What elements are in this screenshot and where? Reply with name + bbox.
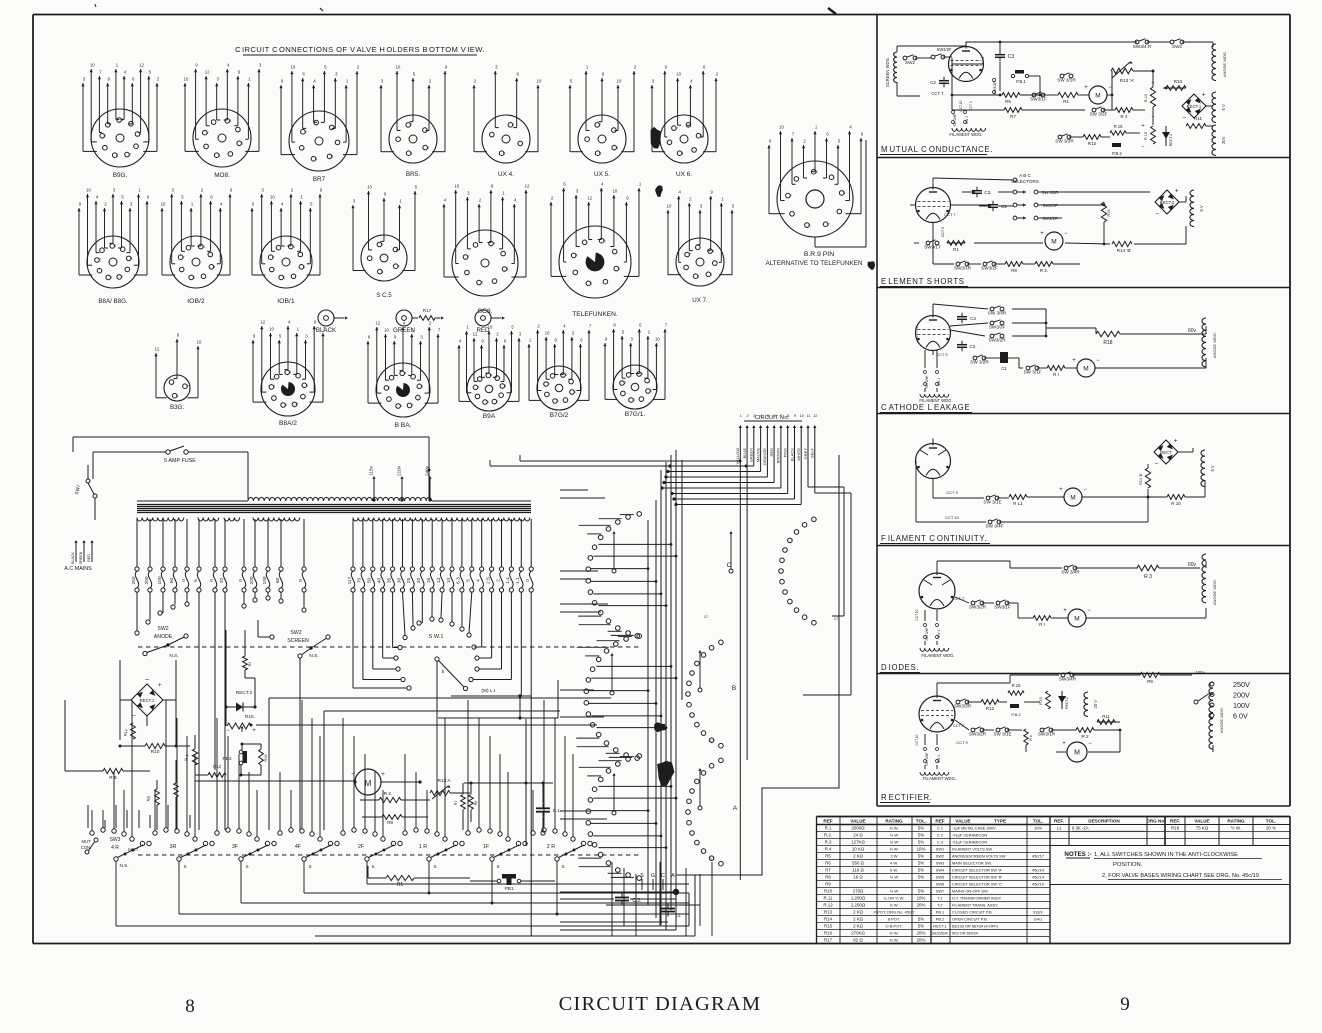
svg-text:12: 12 <box>139 63 144 68</box>
svg-text:6 W.: 6 W. <box>890 868 898 873</box>
svg-text:R10: R10 <box>151 749 160 755</box>
svg-text:R8: R8 <box>1011 268 1017 273</box>
svg-text:1: 1 <box>504 151 506 155</box>
svg-text:R15.: R15. <box>245 714 255 720</box>
svg-text:R7: R7 <box>454 800 458 805</box>
svg-text:7: 7 <box>496 400 498 404</box>
svg-text:1: 1 <box>740 414 742 418</box>
svg-text:17: 17 <box>834 617 838 621</box>
svg-text:−: − <box>1083 487 1087 493</box>
svg-text:+: + <box>252 728 256 734</box>
svg-text:10: 10 <box>537 79 542 84</box>
svg-text:R1: R1 <box>953 247 959 252</box>
svg-text:SCREEN WDG.: SCREEN WDG. <box>885 57 890 87</box>
svg-text:M UTUAL C ONDUCTANCE.: M UTUAL C ONDUCTANCE. <box>881 145 993 154</box>
svg-text:R 2.: R 2. <box>384 791 393 797</box>
svg-text:CCT 9: CCT 9 <box>946 490 958 495</box>
svg-text:C2: C2 <box>930 80 936 85</box>
svg-text:ALTERNATIVE TO TELEFUNKEN: ALTERNATIVE TO TELEFUNKEN <box>765 260 862 267</box>
svg-text:SW2: SW2 <box>905 60 915 65</box>
svg-text:4: 4 <box>398 264 400 268</box>
svg-text:4: 4 <box>641 372 643 376</box>
svg-text:R.2.: R.2. <box>824 833 832 838</box>
svg-text:70: 70 <box>357 578 363 584</box>
svg-text:SW3/1F: SW3/1F <box>1030 97 1047 102</box>
svg-text:C ATHODE L EAKAGE: C ATHODE L EAKAGE <box>881 403 970 412</box>
svg-text:4: 4 <box>293 245 295 249</box>
svg-text:PB1: PB1 <box>504 886 513 892</box>
svg-text:~: ~ <box>145 677 149 684</box>
svg-text:10: 10 <box>800 414 804 418</box>
svg-text:1.4: 1.4 <box>505 577 511 584</box>
svg-text:4: 4 <box>289 371 291 375</box>
svg-text:110 Ω: 110 Ω <box>852 868 864 873</box>
svg-text:MAUVE: MAUVE <box>755 448 760 463</box>
svg-text:0: 0 <box>525 579 531 582</box>
svg-text:8 POT.: 8 POT. <box>888 917 900 922</box>
svg-text:SW 3/2F: SW 3/2F <box>1090 112 1108 117</box>
svg-text:R7: R7 <box>1010 114 1016 119</box>
svg-text:SW 3/1E: SW 3/1E <box>983 500 1001 505</box>
svg-text:S: S <box>245 864 248 869</box>
svg-text:SW3/3F: SW3/3F <box>936 47 952 52</box>
svg-text:7: 7 <box>389 386 391 390</box>
svg-text:1: 1 <box>316 157 318 161</box>
svg-text:2 KΩ: 2 KΩ <box>853 924 864 929</box>
svg-text:C: C <box>661 873 665 879</box>
svg-text:S: S <box>371 864 374 869</box>
svg-text:·01μF CERAMICON: ·01μF CERAMICON <box>952 840 987 845</box>
svg-text:1: 1 <box>633 398 635 402</box>
svg-text:4: 4 <box>427 146 429 150</box>
svg-text:C2: C2 <box>1001 204 1007 209</box>
svg-text:270Ω: 270Ω <box>853 889 864 894</box>
svg-text:C.1.: C.1. <box>553 808 561 813</box>
svg-text:UX 7.: UX 7. <box>692 297 708 304</box>
svg-text:B.R.9 PIN: B.R.9 PIN <box>804 251 834 258</box>
svg-text:8: 8 <box>185 996 195 1017</box>
svg-text:1: 1 <box>285 403 287 407</box>
svg-text:½ W.: ½ W. <box>889 931 898 936</box>
svg-text:100: 100 <box>157 576 163 584</box>
svg-text:RECT: RECT <box>128 848 139 852</box>
svg-text:7: 7 <box>273 255 275 259</box>
svg-text:BUZZER: BUZZER <box>932 931 948 936</box>
svg-text:7: 7 <box>790 194 792 198</box>
svg-text:10: 10 <box>197 340 202 345</box>
svg-text:1: 1 <box>682 151 684 155</box>
svg-text:+: + <box>1084 85 1088 91</box>
svg-text:R I: R I <box>1039 622 1045 627</box>
svg-text:3R: 3R <box>170 844 177 850</box>
svg-text:1: 1 <box>193 276 195 280</box>
svg-text:RECT.1: RECT.1 <box>140 698 155 703</box>
svg-text:2 R: 2 R <box>547 844 555 850</box>
svg-text:10: 10 <box>667 204 672 209</box>
svg-text:16: 16 <box>426 578 432 584</box>
svg-text:SW3/3R: SW3/3R <box>954 704 972 709</box>
svg-text:5: 5 <box>466 579 472 582</box>
svg-text:4: 4 <box>816 170 818 174</box>
svg-text:5%: 5% <box>918 868 924 873</box>
svg-text:G: G <box>651 873 655 879</box>
svg-text:X POT. DRG.No. 45/27: X POT. DRG.No. 45/27 <box>873 910 915 915</box>
svg-text:SW 3/3R: SW 3/3R <box>1042 190 1059 195</box>
svg-text:½ W.: ½ W. <box>889 938 898 943</box>
svg-text:10: 10 <box>655 337 660 342</box>
svg-text:7: 7 <box>104 134 106 138</box>
svg-text:13: 13 <box>436 578 442 584</box>
svg-text:R10: R10 <box>1174 79 1183 84</box>
svg-text:7: 7 <box>121 275 123 279</box>
svg-text:S C.5: S C.5 <box>376 292 392 299</box>
svg-text:−: − <box>226 728 230 734</box>
svg-text:B8A/ B8G.: B8A/ B8G. <box>98 298 128 305</box>
svg-text:SW3/2R: SW3/2R <box>969 605 987 610</box>
svg-text:6: 6 <box>193 579 199 582</box>
svg-text:45c/17: 45c/17 <box>1032 854 1045 859</box>
svg-text:R.11: R.11 <box>824 896 834 901</box>
svg-text:SW2: SW2 <box>290 630 301 636</box>
svg-text:SW3: SW3 <box>110 837 121 843</box>
svg-text:SW 3/1E: SW 3/1E <box>993 732 1011 737</box>
svg-text:CCT 10: CCT 10 <box>915 734 919 745</box>
svg-text:E LEMENT S HORTS: E LEMENT S HORTS <box>881 277 965 286</box>
svg-text:·1μF METAL CASE 390V: ·1μF METAL CASE 390V <box>952 826 996 831</box>
svg-text:UX 5.: UX 5. <box>594 171 610 178</box>
svg-text:FILAMENT TRANS. ASSY.: FILAMENT TRANS. ASSY. <box>952 903 998 908</box>
svg-text:½ W: ½ W <box>890 840 898 845</box>
svg-text:CCT 9: CCT 9 <box>937 353 948 357</box>
svg-text:ANODE WDG.: ANODE WDG. <box>1222 51 1227 77</box>
svg-text:503 OR 66X34: 503 OR 66X34 <box>952 931 979 936</box>
svg-text:CIRCUIT DIAGRAM: CIRCUIT DIAGRAM <box>559 993 762 1015</box>
svg-text:1: 1 <box>117 153 119 157</box>
svg-text:CCT 7: CCT 7 <box>944 212 956 217</box>
svg-text:UX 4.: UX 4. <box>498 171 514 178</box>
svg-text:R16: R16 <box>1107 210 1111 217</box>
svg-text:SW3/2R: SW3/2R <box>1042 216 1058 221</box>
svg-text:SW 3/4R: SW 3/4R <box>988 311 1007 316</box>
svg-text:200: 200 <box>249 576 255 584</box>
svg-text:SW7: SW7 <box>936 889 944 894</box>
svg-text:20 V: 20 V <box>1093 700 1098 709</box>
svg-text:100v: 100v <box>1195 670 1205 675</box>
svg-text:7: 7 <box>297 403 299 407</box>
svg-text:CCT 7.: CCT 7. <box>931 91 944 96</box>
svg-text:P.B.2: P.B.2 <box>1011 712 1021 717</box>
svg-text:2: 2 <box>747 414 749 418</box>
svg-text:4 W.: 4 W. <box>890 861 898 866</box>
svg-text:R18: R18 <box>1171 826 1180 831</box>
svg-text:DESCRIPTION: DESCRIPTION <box>1088 818 1120 823</box>
svg-text:−: − <box>1156 211 1160 218</box>
svg-text:BR5.: BR5. <box>406 171 420 178</box>
svg-text:BROWN: BROWN <box>776 448 781 463</box>
svg-text:OPEN CIRCUIT P.B.: OPEN CIRCUIT P.B. <box>952 917 988 922</box>
svg-text:75 KΩ: 75 KΩ <box>1196 826 1209 831</box>
svg-text:GREEN: GREEN <box>79 551 83 564</box>
svg-text:−: − <box>1155 461 1159 468</box>
svg-text:+: + <box>1072 358 1076 364</box>
svg-text:20V: 20V <box>1221 136 1226 144</box>
svg-text:1: 1 <box>283 276 285 280</box>
svg-text:12: 12 <box>375 321 380 326</box>
svg-text:RED: RED <box>476 327 490 334</box>
svg-text:9: 9 <box>794 414 796 418</box>
svg-text:12: 12 <box>587 196 592 201</box>
svg-text:4: 4 <box>476 579 482 582</box>
svg-text:R-10: R-10 <box>1144 94 1148 102</box>
svg-text:20%: 20% <box>917 931 926 936</box>
svg-text:M: M <box>1083 365 1088 372</box>
svg-text:1: 1 <box>600 151 602 155</box>
svg-text:R 15: R 15 <box>1039 697 1043 705</box>
svg-text:+: + <box>1175 187 1179 194</box>
svg-text:C.3: C.3 <box>937 840 943 845</box>
svg-text:−: − <box>1183 115 1187 122</box>
svg-text:4: 4 <box>203 245 205 249</box>
svg-text:GREY: GREY <box>803 448 808 460</box>
svg-text:6.3: 6.3 <box>456 577 462 584</box>
svg-text:100V: 100V <box>1233 701 1250 710</box>
svg-text:R ECTIFIER.: R ECTIFIER. <box>881 793 933 802</box>
svg-text:10: 10 <box>367 185 372 190</box>
svg-text:R 15: R 15 <box>1144 132 1148 140</box>
svg-text:UX 6.: UX 6. <box>676 171 692 178</box>
svg-text:A.C MAINS: A.C MAINS <box>64 566 92 572</box>
svg-text:10: 10 <box>270 195 275 200</box>
svg-text:127KΩ: 127KΩ <box>851 840 865 845</box>
svg-text:5%: 5% <box>918 854 924 859</box>
svg-text:5: 5 <box>767 414 769 418</box>
svg-text:−: − <box>1096 358 1100 364</box>
svg-text:SW3/4R: SW3/4R <box>1059 677 1077 682</box>
svg-text:R13: R13 <box>824 910 833 915</box>
svg-text:5%: 5% <box>918 889 924 894</box>
svg-text:·01μF CERAMICON: ·01μF CERAMICON <box>952 833 987 838</box>
svg-text:D IODES.: D IODES. <box>881 663 919 672</box>
svg-text:SW 1: SW 1 <box>937 630 941 638</box>
svg-text:7: 7 <box>187 384 189 388</box>
svg-text:FILAMENT WDG..: FILAMENT WDG.. <box>923 776 957 781</box>
svg-text:550 Ω: 550 Ω <box>852 861 865 866</box>
svg-text:2, FOR VALVE BASES WIRING: 2, FOR VALVE BASES WIRING CHART SEE DRG.… <box>1102 873 1259 879</box>
svg-text:7: 7 <box>410 123 412 127</box>
svg-text:7: 7 <box>676 126 678 130</box>
svg-text:R 5: R 5 <box>109 775 117 781</box>
svg-text:PB.2: PB.2 <box>936 917 944 922</box>
svg-text:4: 4 <box>604 239 606 243</box>
svg-text:R5: R5 <box>825 854 831 859</box>
svg-text:BLACK: BLACK <box>789 448 794 461</box>
svg-text:VALUE: VALUE <box>955 818 970 823</box>
svg-text:4: 4 <box>760 414 762 418</box>
svg-text:0: 0 <box>298 579 304 582</box>
svg-text:PB2: PB2 <box>222 756 231 762</box>
svg-text:½ W.: ½ W. <box>1231 826 1241 831</box>
svg-text:60: 60 <box>169 578 175 584</box>
svg-text:SW3/3F: SW3/3F <box>1042 203 1058 208</box>
svg-text:1: 1 <box>241 142 243 146</box>
svg-text:100: 100 <box>262 576 268 584</box>
svg-text:3F: 3F <box>232 844 239 850</box>
svg-text:P.B.1: P.B.1 <box>1016 79 1026 84</box>
svg-text:5 AMP FUSE: 5 AMP FUSE <box>164 458 196 464</box>
svg-text:SW 1: SW 1 <box>965 116 969 124</box>
svg-text:RATING: RATING <box>1227 818 1245 823</box>
svg-text:115v: 115v <box>369 465 374 475</box>
svg-text:PB.1: PB.1 <box>936 910 944 915</box>
svg-text:SCREEN: SCREEN <box>287 638 309 644</box>
svg-text:10: 10 <box>86 188 91 193</box>
svg-text:WHITE: WHITE <box>796 448 801 461</box>
svg-text:BD133 OR 66X34 (4-OFF): BD133 OR 66X34 (4-OFF) <box>952 924 999 929</box>
svg-text:SW3/1R: SW3/1R <box>1038 732 1056 737</box>
svg-text:17: 17 <box>710 739 714 743</box>
svg-text:C2.: C2. <box>969 344 976 349</box>
svg-text:R12: R12 <box>986 706 995 711</box>
svg-text:35: 35 <box>386 578 392 584</box>
svg-text:SW3/2R: SW3/2R <box>988 338 1006 343</box>
svg-text:3: 3 <box>753 414 755 418</box>
svg-text:R1: R1 <box>397 882 404 888</box>
svg-text:SW3/1R: SW3/1R <box>954 266 972 271</box>
svg-text:7: 7 <box>689 253 691 257</box>
svg-text:+: + <box>1174 437 1178 444</box>
svg-text:RED: RED <box>87 554 91 562</box>
svg-text:B9G.: B9G. <box>113 172 128 179</box>
svg-text:CCT 10: CCT 10 <box>959 100 963 111</box>
svg-text:(M) L.I.: (M) L.I. <box>481 688 496 694</box>
svg-text:0: 0 <box>181 579 187 582</box>
svg-text:4: 4 <box>490 374 492 378</box>
svg-text:½ W: ½ W <box>890 875 898 880</box>
svg-text:10: 10 <box>779 125 784 130</box>
svg-text:2 W: 2 W <box>890 854 897 859</box>
svg-text:5%: 5% <box>918 840 924 845</box>
svg-text:10: 10 <box>90 63 95 68</box>
svg-text:4 R: 4 R <box>111 845 119 851</box>
svg-text:S: S <box>640 873 644 879</box>
svg-text:40: 40 <box>377 578 383 584</box>
svg-text:MAINS ON-OFF SW.: MAINS ON-OFF SW. <box>952 889 989 894</box>
svg-text:−: − <box>1088 741 1092 747</box>
svg-text:11: 11 <box>807 414 811 418</box>
svg-text:10: 10 <box>446 578 452 584</box>
svg-text:1: 1 <box>332 155 334 159</box>
svg-text:IOB/2: IOB/2 <box>187 298 205 305</box>
svg-text:ANODE WDG.: ANODE WDG. <box>1212 579 1217 605</box>
svg-text:A: A <box>671 873 675 879</box>
svg-text:MAIN SELECTOR SW.: MAIN SELECTOR SW. <box>952 861 992 866</box>
svg-text:R8: R8 <box>825 875 831 880</box>
svg-text:TOL.: TOL. <box>916 818 926 823</box>
svg-text:6 0V: 6 0V <box>1233 712 1248 721</box>
svg-text:17: 17 <box>710 857 714 861</box>
svg-text:SW 3/4F: SW 3/4F <box>925 375 929 388</box>
svg-text:SW 3/3R: SW 3/3R <box>1055 139 1074 144</box>
svg-text:SW5: SW5 <box>936 875 944 880</box>
svg-text:−: − <box>1064 231 1068 237</box>
svg-text:SW3/1F: SW3/1F <box>994 605 1011 610</box>
svg-text:PINK: PINK <box>783 448 788 458</box>
svg-text:50: 50 <box>367 578 373 584</box>
svg-text:B7G/1.: B7G/1. <box>625 411 646 418</box>
svg-text:S: S <box>183 864 186 869</box>
svg-text:R11: R11 <box>1102 714 1110 719</box>
svg-text:TOL.: TOL. <box>1266 818 1276 823</box>
svg-text:5%: 5% <box>918 833 924 838</box>
svg-text:20: 20 <box>219 578 225 584</box>
svg-text:SW 3/4F: SW 3/4F <box>953 113 957 126</box>
svg-text:6 V: 6 V <box>1210 465 1215 471</box>
svg-text:2,200Ω: 2,200Ω <box>851 903 866 908</box>
svg-text:R 2.: R 2. <box>1040 268 1048 273</box>
svg-text:+: + <box>1040 231 1044 237</box>
svg-text:R6: R6 <box>474 800 478 805</box>
svg-text:+: + <box>1202 91 1206 98</box>
svg-text:+: + <box>1141 123 1144 129</box>
svg-text:1F: 1F <box>483 844 490 850</box>
svg-text:M: M <box>1070 494 1075 501</box>
svg-text:4: 4 <box>616 146 618 150</box>
svg-text:1: 1 <box>698 274 700 278</box>
svg-text:½ W: ½ W <box>890 833 898 838</box>
svg-text:6 V: 6 V <box>1221 104 1226 110</box>
svg-text:CCT 10: CCT 10 <box>915 326 919 337</box>
svg-text:1: 1 <box>574 390 576 394</box>
svg-text:10: 10 <box>184 77 189 82</box>
svg-text:CCT 9: CCT 9 <box>969 101 973 110</box>
svg-text:TELEFUNKEN.: TELEFUNKEN. <box>572 311 618 318</box>
svg-text:4F: 4F <box>295 844 302 850</box>
svg-text:R6: R6 <box>825 861 831 866</box>
svg-text:R13 'A': R13 'A' <box>1120 78 1135 83</box>
svg-text:CCT 9: CCT 9 <box>956 740 968 745</box>
svg-text:SW4: SW4 <box>936 868 945 873</box>
svg-text:½ W.: ½ W. <box>889 826 898 831</box>
svg-text:12: 12 <box>205 70 210 75</box>
svg-text:R14 'B': R14 'B' <box>1139 473 1143 485</box>
svg-text:10: 10 <box>617 79 622 84</box>
svg-text:1: 1 <box>131 257 133 261</box>
svg-text:R9: R9 <box>1147 679 1153 684</box>
svg-text:S: S <box>308 864 311 869</box>
svg-text:R 3: R 3 <box>1144 574 1152 580</box>
svg-text:−: − <box>132 712 136 719</box>
svg-text:5%: 5% <box>918 924 924 929</box>
svg-text:R 2: R 2 <box>1081 734 1089 739</box>
svg-text:117: 117 <box>347 576 353 584</box>
svg-text:7: 7 <box>382 243 384 247</box>
svg-text:60: 60 <box>275 578 281 584</box>
svg-text:C: C <box>727 562 732 569</box>
svg-text:5%: 5% <box>918 917 924 922</box>
svg-text:R 16: R 16 <box>1114 124 1124 129</box>
svg-text:10%: 10% <box>917 847 926 852</box>
svg-text:B3G.: B3G. <box>170 404 184 411</box>
svg-text:60v: 60v <box>1188 328 1197 334</box>
svg-text:C 2: C 2 <box>937 833 943 838</box>
svg-text:7: 7 <box>274 385 276 389</box>
svg-text:SW 3/4F: SW 3/4F <box>986 524 1004 529</box>
svg-text:FILAMENT VOLTS SW: FILAMENT VOLTS SW <box>952 847 992 852</box>
svg-text:4: 4 <box>493 242 495 246</box>
svg-text:2F: 2F <box>358 844 365 850</box>
svg-text:7: 7 <box>624 381 626 385</box>
svg-text:RECT.2: RECT.2 <box>1169 134 1173 146</box>
